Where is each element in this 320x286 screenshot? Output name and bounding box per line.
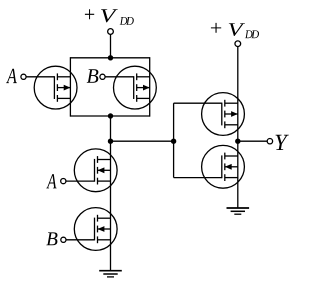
wire output node to terminal Y [238, 140, 267, 142]
transistor NMOS inverter [174, 145, 245, 188]
wire NAND output rail bottom of PMOS pair [70, 115, 149, 117]
wire inverter VDD rail down through transistors [237, 47, 239, 209]
label input A middle [46, 174, 56, 188]
transistor PMOS QA (input A) [26, 66, 77, 109]
junction NAND output to inverter [108, 139, 113, 144]
input terminal A middle [61, 179, 66, 184]
input terminal A top [21, 74, 26, 79]
wire VDD left down to rail [110, 34, 112, 58]
wire right branch of PMOS pair [149, 57, 151, 117]
label input A top [6, 69, 17, 83]
transistor PMOS inverter [174, 93, 245, 136]
wire VDD rail top of PMOS pair [70, 57, 149, 59]
transistor PMOS QB (input B) [105, 66, 156, 109]
transistor NMOS QB (input B) [66, 208, 117, 251]
transistor NMOS QA (input A) [66, 149, 117, 192]
junction NAND output rail [108, 113, 113, 118]
wire NMOS stack vertical [110, 116, 112, 271]
supply label +VDD left [85, 9, 134, 25]
label input B bottom [46, 232, 57, 245]
junction output node Y [235, 139, 240, 144]
wire left branch of PMOS pair [69, 57, 71, 117]
VDD terminal left [108, 29, 114, 35]
ground inverter [227, 208, 250, 214]
label output Y [276, 135, 289, 150]
junction VDD rail [108, 55, 113, 60]
wire NAND output to inverter input [111, 140, 174, 142]
wire inverter input gate bus [173, 103, 175, 177]
VDD terminal right [235, 41, 241, 47]
input terminal B top [100, 74, 105, 79]
supply label +VDD right [211, 23, 259, 38]
label input B top [87, 69, 99, 83]
ground NAND stack [99, 271, 122, 277]
input terminal B bottom [61, 237, 66, 242]
junction inverter input [171, 139, 176, 144]
output terminal Y [267, 139, 272, 144]
